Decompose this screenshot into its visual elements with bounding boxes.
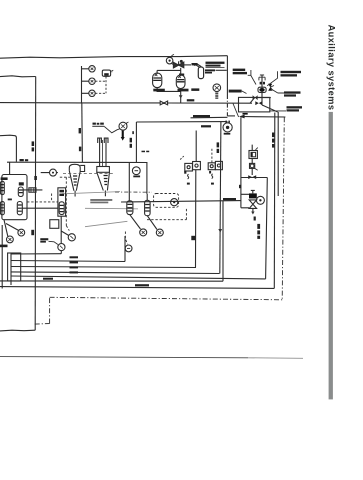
svg-text:Auxiliary systems: Auxiliary systems bbox=[326, 25, 336, 111]
